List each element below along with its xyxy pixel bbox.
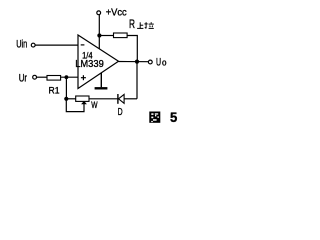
node +Vcc terminal [97, 11, 101, 15]
wire diode to output vertical [124, 98, 137, 100]
svg-text:o: o [162, 57, 167, 67]
wire Uin to inverting input [35, 44, 78, 46]
junction pot node [64, 97, 68, 101]
junction Vcc node [97, 33, 101, 37]
wire Vcc to pull-up resistor [99, 35, 114, 37]
svg-text:W: W [91, 100, 98, 110]
wire R1 to non-inverting input [61, 76, 78, 78]
pin plus non-inverting input mark [81, 75, 86, 80]
node Uin terminal [31, 43, 35, 47]
node Ur terminal [33, 75, 37, 79]
wire pull-up right segment [127, 36, 137, 62]
wire wiper feedback [66, 99, 84, 112]
pin minus inverting input mark [81, 44, 85, 46]
svg-text:R1: R1 [49, 85, 60, 96]
wire potentiometer to diode [89, 98, 118, 100]
resistor R1 [47, 76, 61, 81]
wire Ur to R1 [37, 76, 48, 78]
potentiometer W body [76, 96, 89, 101]
svg-text:LM339: LM339 [75, 59, 104, 70]
svg-text:R: R [129, 19, 135, 31]
junction Ur node [65, 75, 69, 79]
svg-text:5: 5 [170, 109, 177, 125]
op-amp U1 1/4 LM339 [78, 35, 119, 89]
wire Ur node down to pot [65, 77, 67, 99]
label figure caption tu (CJK) [149, 112, 160, 123]
wire output node down to diode [136, 62, 138, 99]
wire Vcc vertical [98, 15, 100, 50]
pin wiper arrow [81, 101, 87, 104]
wire op-amp output [119, 61, 149, 63]
svg-text:+Vcc: +Vcc [106, 6, 127, 18]
svg-text:Uin: Uin [16, 39, 27, 51]
diode D [118, 94, 124, 104]
junction output node [135, 60, 139, 64]
svg-text:D: D [118, 107, 123, 118]
wire pot node to potentiometer [66, 98, 76, 100]
label shangla (CJK pull-up) [137, 22, 154, 28]
svg-text:Ur: Ur [19, 72, 28, 84]
svg-text:U: U [156, 56, 161, 68]
ground [95, 73, 108, 90]
node Uo terminal [148, 60, 152, 64]
resistor R pull-up [114, 33, 128, 38]
